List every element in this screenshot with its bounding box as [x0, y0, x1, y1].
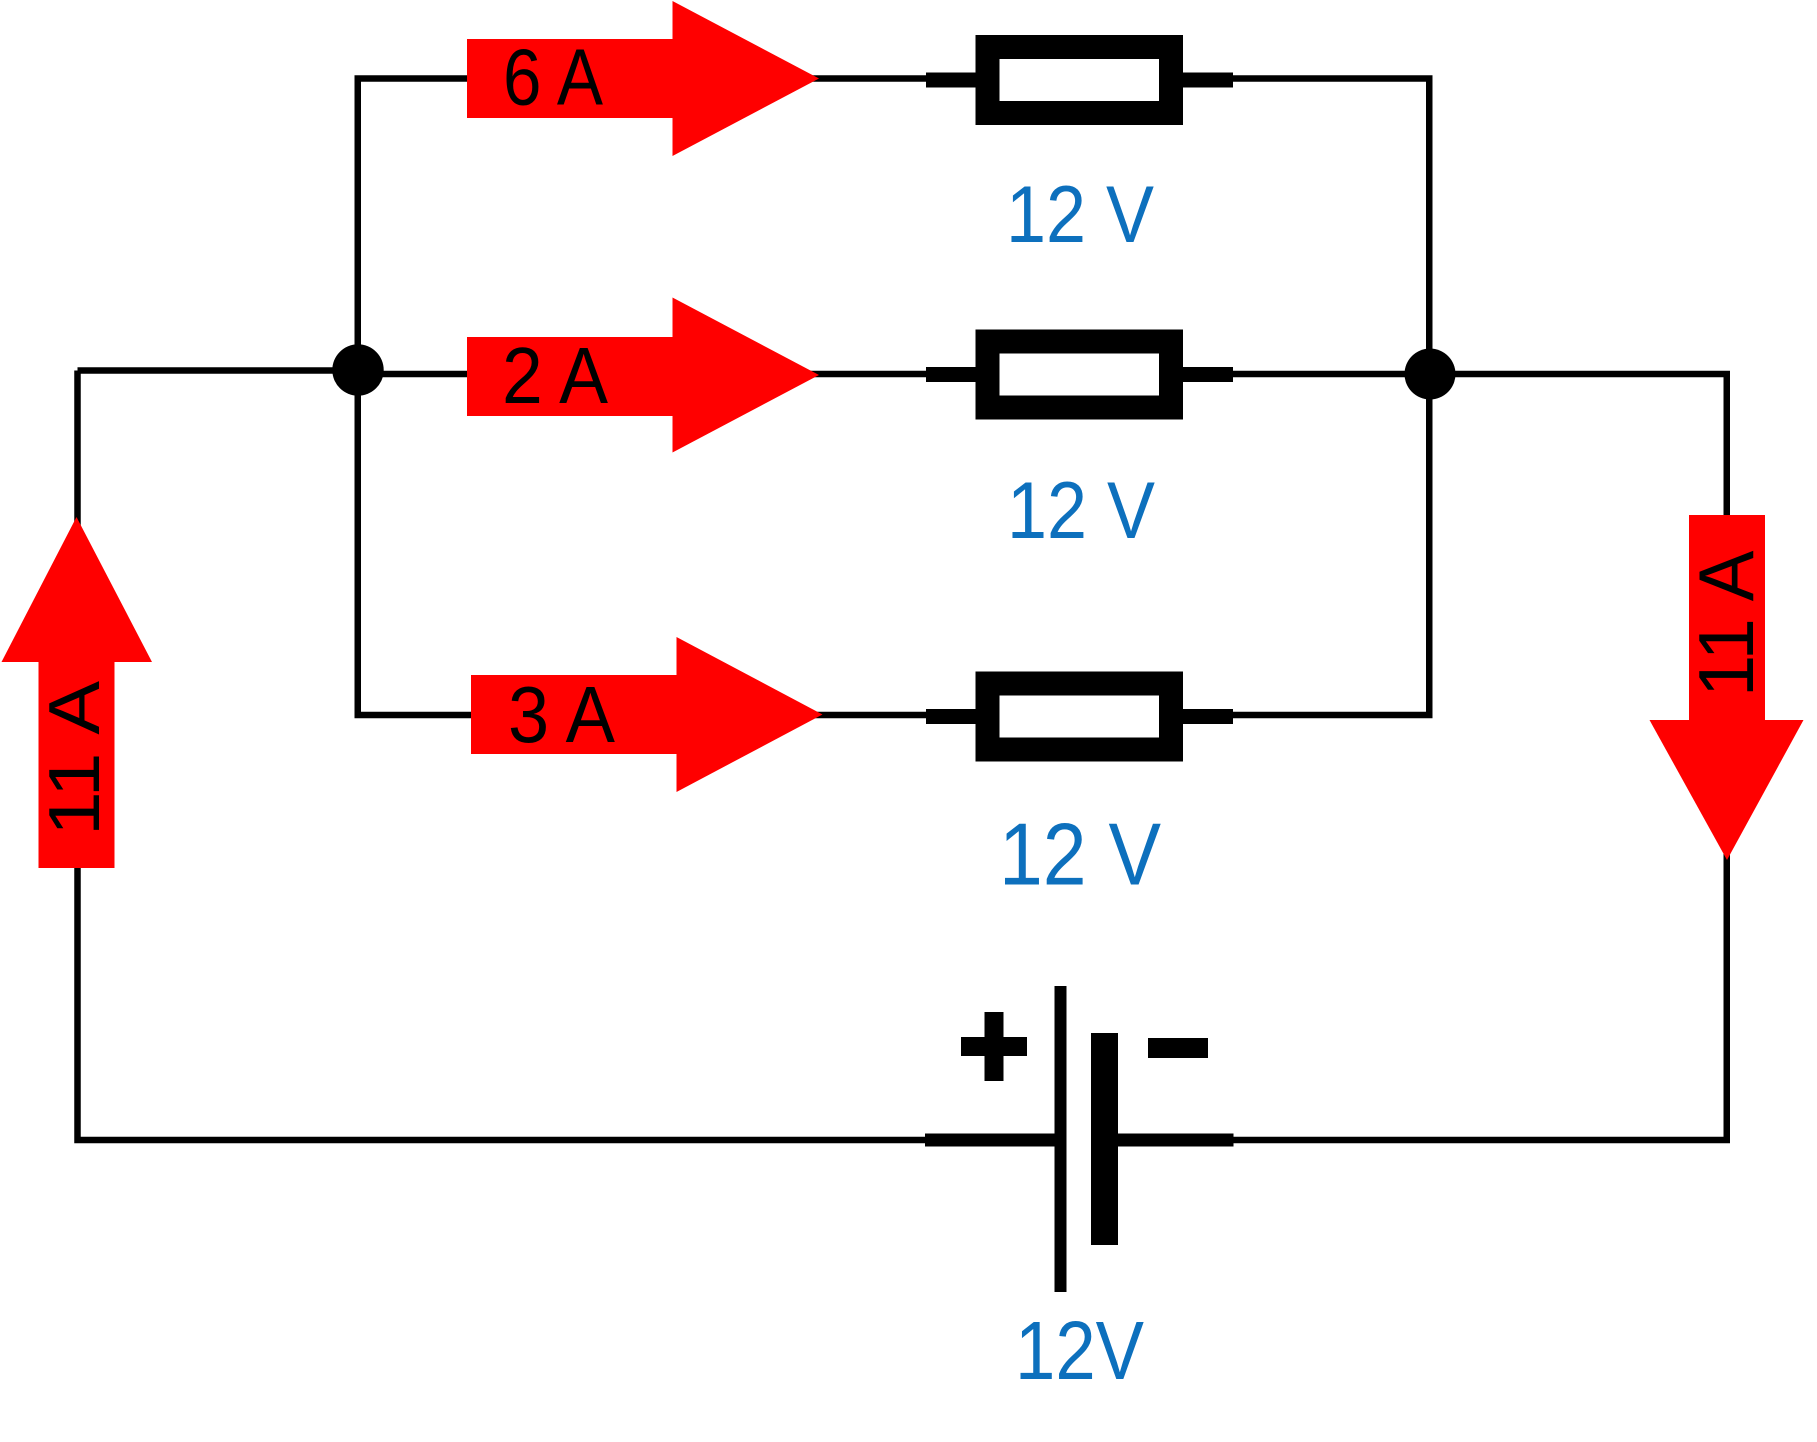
svg-text:12 V: 12 V	[1006, 170, 1154, 260]
svg-text:2 A: 2 A	[502, 331, 609, 420]
svg-text:3 A: 3 A	[508, 670, 616, 759]
svg-text:11 A: 11 A	[35, 681, 115, 836]
svg-text:12 V: 12 V	[999, 805, 1161, 904]
svg-text:12V: 12V	[1015, 1304, 1144, 1397]
svg-text:12 V: 12 V	[1007, 466, 1155, 556]
svg-text:11 A: 11 A	[1682, 551, 1770, 698]
svg-text:6 A: 6 A	[503, 33, 604, 122]
